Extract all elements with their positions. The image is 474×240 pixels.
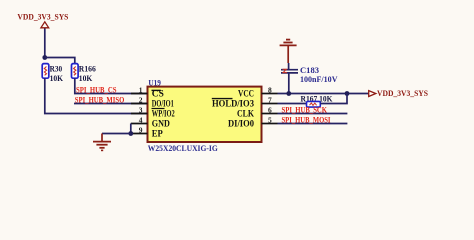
svg-text:3: 3 <box>139 106 143 115</box>
power port VDD_3V3_SYS (right) triangle symbol <box>369 91 376 97</box>
capacitor C183 top plate <box>281 69 298 71</box>
svg-text:SPI_HUB_MISO: SPI_HUB_MISO <box>75 96 125 105</box>
svg-text:2: 2 <box>139 96 143 105</box>
pin 6 stub (CLK) <box>262 113 278 115</box>
svg-text:W25X20CLUXIG-IG: W25X20CLUXIG-IG <box>148 144 218 153</box>
resistor R30 inner glyph <box>44 67 46 76</box>
wire R30 bottom down to pin3 row <box>45 78 148 113</box>
junction node R167/VCC <box>345 91 350 96</box>
pin 2 stub (DO/IO1) <box>131 103 148 105</box>
ground symbol (top right, flipped) bar small <box>286 39 290 41</box>
wire pin4 down to pin9 row <box>130 124 132 134</box>
resistor R30 body <box>42 64 49 79</box>
ground symbol (top right) stem <box>287 45 289 63</box>
svg-text:4: 4 <box>139 116 143 125</box>
wire C183 bottom to VCC rail <box>288 73 290 94</box>
pin name DO underline <box>152 108 165 110</box>
wire pin9 row to ground <box>102 133 131 135</box>
pin 5 stub (DI/IO0) <box>262 123 278 125</box>
pin name HOLD overline <box>212 98 233 100</box>
resistor R167 body <box>307 101 321 107</box>
ground symbol bar 1 <box>93 141 111 143</box>
wire pin6 row (SPI_HUB_SCK net) <box>278 113 348 115</box>
ground symbol bar 4 <box>101 149 103 151</box>
svg-text:VDD_3V3_SYS: VDD_3V3_SYS <box>17 11 68 21</box>
junction node C183/VCC <box>286 91 291 96</box>
svg-text:HOLD/IO3: HOLD/IO3 <box>212 99 254 109</box>
wire VCC rail to power port <box>278 93 369 95</box>
pin 7 stub (HOLD/IO3) <box>262 103 278 105</box>
ground symbol (top right) bar wide <box>280 44 297 46</box>
ground symbol (top right) bar medium <box>283 42 292 44</box>
ground symbol bar 3 <box>99 147 104 149</box>
pin 8 stub (VCC) <box>262 93 278 95</box>
wire pin2 row (SPI_HUB_MISO net) <box>74 103 148 105</box>
resistor R166 inner glyph <box>74 67 76 76</box>
wire R166 bottom down to pin1 row (SPI_HUB_CS net) <box>75 78 148 93</box>
svg-text:DO/IO1: DO/IO1 <box>152 99 174 109</box>
IC U19 body (W25X20 flash) <box>148 87 262 142</box>
junction node at R30/R166 tap <box>42 55 47 60</box>
svg-text:WP/IO2: WP/IO2 <box>152 109 175 119</box>
capacitor C183 bottom plate <box>281 72 298 74</box>
pin name CS overline <box>152 89 161 91</box>
resistor R167 inner glyph <box>310 103 317 105</box>
pin 3 stub (WP/IO2) <box>131 113 148 115</box>
svg-text:EP: EP <box>152 129 163 139</box>
svg-text:VDD_3V3_SYS: VDD_3V3_SYS <box>377 88 428 98</box>
svg-text:GND: GND <box>152 119 170 129</box>
ground symbol (bottom left) stem <box>101 134 103 142</box>
svg-text:9: 9 <box>139 126 143 135</box>
wire pin7 to R167 left <box>278 103 307 105</box>
wire pin5 row (SPI_HUB_MOSI net) <box>278 123 348 125</box>
svg-text:R30: R30 <box>50 65 63 74</box>
capacitor C183 inner red mark <box>283 69 288 72</box>
pin 9 stub (EP) <box>131 133 148 135</box>
resistor R166 body <box>72 64 79 79</box>
svg-text:SPI_HUB_MOSI: SPI_HUB_MOSI <box>282 116 331 125</box>
ground symbol bar 2 <box>96 144 107 146</box>
svg-text:100nF/10V: 100nF/10V <box>300 74 338 84</box>
wire R167 right to VCC rail <box>320 94 347 104</box>
svg-text:SPI_HUB_CS: SPI_HUB_CS <box>76 86 117 95</box>
pin 1 stub (CS) <box>131 93 148 95</box>
svg-text:1: 1 <box>139 86 143 95</box>
wire from VDD_3V3_SYS down to junction <box>44 29 46 58</box>
svg-text:SPI_HUB_SCK: SPI_HUB_SCK <box>282 106 328 115</box>
svg-text:10K: 10K <box>50 74 64 83</box>
wire junction to R166 top <box>45 58 75 65</box>
junction node pin4/pin9 <box>128 131 133 136</box>
power port VDD_3V3_SYS (top left) triangle symbol <box>41 22 49 28</box>
wire ground stem to C183 top <box>288 63 290 70</box>
svg-text:CLK: CLK <box>237 109 255 119</box>
pin 4 stub (GND) <box>131 123 148 125</box>
svg-text:VCC: VCC <box>238 89 254 99</box>
svg-text:R166: R166 <box>79 65 96 74</box>
svg-text:10K: 10K <box>79 74 93 83</box>
svg-text:DI/IO0: DI/IO0 <box>228 119 254 129</box>
